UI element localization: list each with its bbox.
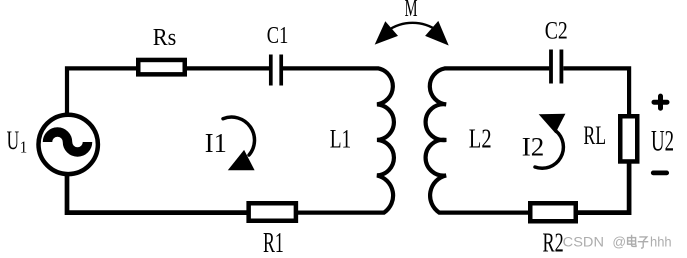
AC source sine symbol — [48, 132, 88, 152]
minus polarity mark — [653, 171, 667, 176]
wire Rs to C1 — [187, 66, 270, 70]
AC source U1 circle — [38, 115, 97, 174]
resistor Rs — [138, 60, 185, 74]
current arrow I2 head — [539, 114, 566, 133]
svg-text:L1: L1 — [330, 125, 352, 154]
svg-text:M: M — [405, 0, 418, 22]
svg-text:I1: I1 — [205, 128, 227, 158]
svg-text:C1: C1 — [267, 22, 289, 49]
current arrow I2 arc — [535, 131, 563, 168]
current arrow I1 arc — [223, 117, 255, 155]
wire top-left corner (source top to Rs) — [67, 68, 137, 113]
mutual inductance left arrowhead — [375, 21, 398, 44]
capacitor C1 plates — [271, 55, 281, 86]
svg-text:C2: C2 — [545, 18, 568, 45]
wire RL to bottom-right corner to R2 — [578, 164, 630, 213]
capacitor C2 plates — [551, 50, 561, 84]
svg-text:@: @ — [612, 235, 626, 250]
inductor L2 coil and wire to C2 — [426, 68, 550, 212]
wire C2 to top-right corner down to RL — [563, 68, 629, 114]
svg-text:hhh: hhh — [650, 235, 672, 250]
svg-text:I2: I2 — [522, 131, 545, 161]
svg-text:U2: U2 — [651, 125, 674, 158]
resistor RL — [620, 116, 637, 161]
svg-text:R2: R2 — [543, 227, 564, 257]
svg-text:CSDN: CSDN — [563, 235, 604, 250]
svg-text:1: 1 — [20, 137, 28, 156]
wire C1 to L1 and inductor L1 coil — [283, 68, 394, 212]
resistor R1 — [249, 203, 296, 221]
mutual inductance arrow arc — [387, 23, 437, 31]
plus polarity mark — [654, 96, 667, 108]
mutual inductance right arrowhead — [425, 21, 449, 46]
svg-text:R1: R1 — [263, 228, 284, 258]
resistor R2 — [530, 203, 576, 221]
svg-text:U: U — [7, 126, 20, 155]
wire R1 to source bottom — [67, 176, 247, 213]
svg-text:RL: RL — [583, 120, 606, 150]
current arrow I1 head — [228, 150, 255, 170]
svg-text:L2: L2 — [469, 124, 492, 154]
watermark glyph zi — [638, 237, 649, 248]
watermark glyph dian — [628, 235, 636, 247]
svg-text:Rs: Rs — [153, 25, 177, 51]
